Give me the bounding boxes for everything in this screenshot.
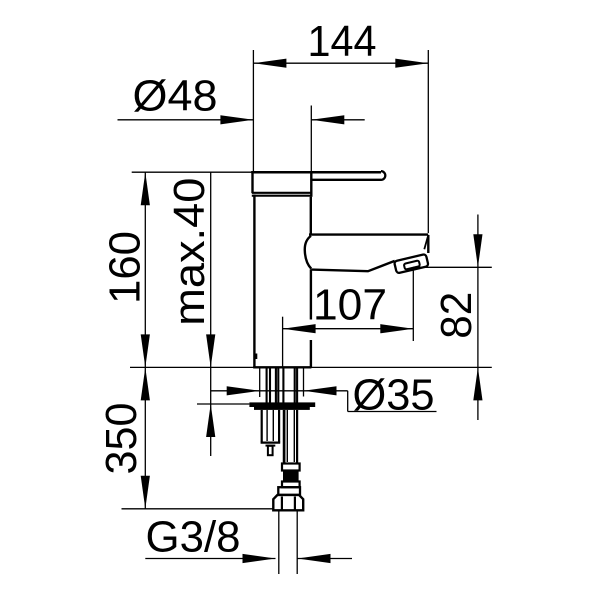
valve body left edge	[261, 410, 263, 443]
dimension O35 text underline	[348, 411, 437, 413]
nut facet line right	[294, 497, 296, 511]
arrowhead 350 top	[141, 367, 150, 400]
valve body shoulder lower	[266, 445, 276, 447]
svg-text:max.40: max.40	[166, 178, 214, 326]
valve body inner line right	[272, 410, 274, 441]
shank hose line c	[275, 368, 277, 402]
column right edge lower segment	[310, 340, 312, 367]
mounting flange plate	[249, 402, 315, 407]
dimension 82 dim line	[477, 215, 479, 421]
hose collar upper	[282, 464, 300, 471]
aerator outer housing	[394, 254, 429, 274]
spout left bulge curve	[305, 236, 311, 269]
dimension 107 right extension line	[412, 267, 414, 341]
hose tube right edge	[296, 410, 298, 464]
dimension O35 dim line	[211, 390, 348, 392]
dimension 144 dim line	[253, 62, 428, 64]
svg-text:G3/8: G3/8	[146, 514, 241, 562]
arrowhead 82 top	[473, 234, 482, 267]
column right edge upper segment	[310, 197, 312, 235]
faucet head joint line upper	[252, 192, 312, 194]
arrowhead max40 bottom	[206, 404, 215, 437]
column left edge	[253, 195, 255, 368]
nut facet line left	[281, 497, 283, 511]
arrowhead G38 right	[298, 554, 331, 563]
dimension max40 dim line	[210, 172, 212, 456]
valve body shoulder	[261, 442, 281, 444]
arrowhead 107 left	[283, 324, 316, 333]
dimension 160/350 dim line	[144, 172, 146, 509]
dimension 82 top reference line	[413, 266, 492, 268]
arrowhead O35 left	[227, 386, 260, 395]
column right edge middle segment	[310, 269, 312, 319]
arrowhead max40 top	[206, 334, 215, 367]
arrowhead G38 left	[243, 554, 276, 563]
faucet head cap top and lever top edge	[251, 171, 381, 174]
hose tube inner line left	[286, 410, 288, 462]
spout tip inner chamfer	[424, 237, 428, 250]
lever bottom edge	[311, 179, 381, 181]
arrowhead 107 right	[380, 324, 413, 333]
hose tube left edge	[283, 410, 286, 464]
dimension O35 leader riser	[347, 391, 349, 412]
fixing clip tick on column left edge	[254, 354, 257, 360]
arrowhead 160 top	[141, 172, 150, 205]
arrowhead O48 left	[220, 115, 253, 124]
dimension 160 top reference line	[132, 171, 252, 173]
valve body inner line left	[266, 410, 268, 441]
spout tip right edge	[427, 235, 429, 253]
svg-text:107: 107	[313, 282, 387, 330]
arrowhead 144 left	[253, 59, 286, 68]
spout bottom edge	[311, 261, 395, 271]
dimension G38 dim line left part	[145, 558, 275, 560]
shank thread line b	[269, 368, 271, 402]
dimension O35 right extension line	[303, 369, 305, 397]
mounting plane reference line	[130, 366, 492, 368]
faucet head joint line lower	[252, 195, 312, 197]
connector step	[278, 487, 300, 495]
dimension max40 bottom reference line	[197, 403, 249, 405]
dimension 107 left extension line	[282, 317, 284, 367]
shank rod line e	[282, 368, 284, 402]
arrowhead 82 bottom	[473, 367, 482, 400]
shank hose line d	[277, 368, 279, 402]
faucet head cap right edge	[310, 171, 312, 197]
dimension O35 left extension line	[259, 369, 261, 398]
svg-text:Ø48: Ø48	[133, 73, 218, 121]
arrowhead 144 right	[395, 59, 428, 68]
dimension 144 left extension line	[252, 50, 254, 171]
shank hose line f	[294, 368, 296, 402]
spout top edge	[309, 233, 428, 235]
dimension O48 right extension line	[310, 106, 312, 172]
arrowhead 350 bottom	[141, 476, 150, 509]
dimension 107 dim line	[283, 328, 414, 330]
mounting flange ring	[254, 407, 310, 410]
shank thread line a	[266, 368, 268, 402]
valve body right edge	[278, 410, 280, 443]
connection nut	[273, 495, 303, 510]
valve nipple	[268, 446, 273, 455]
faucet head cap left edge	[251, 171, 253, 193]
svg-text:160: 160	[102, 231, 150, 304]
svg-text:82: 82	[433, 292, 481, 339]
arrowhead O48 right	[311, 115, 344, 124]
dimension O48 dim line right tail	[311, 119, 364, 121]
supply pipe left edge	[278, 510, 280, 574]
svg-text:144: 144	[308, 18, 377, 66]
supply pipe right edge	[296, 510, 298, 574]
svg-text:Ø35: Ø35	[353, 372, 435, 420]
svg-text:350: 350	[98, 403, 146, 475]
lever rounded end	[381, 171, 385, 180]
hose tube inner line right	[293, 410, 295, 462]
arrowhead O35 right	[304, 386, 337, 395]
hose collar lower	[282, 482, 300, 488]
dimension G38 dim line right tail	[298, 558, 353, 560]
arrowhead 160 bottom	[141, 334, 150, 367]
shank hose line g	[296, 368, 298, 402]
column base line	[253, 366, 311, 368]
hose braided section	[283, 471, 299, 482]
dimension 350 bottom reference line	[122, 508, 274, 510]
aerator inner outlet	[404, 260, 420, 269]
dimension 144 right extension line	[427, 50, 429, 233]
dimension O48 dim line left part	[118, 119, 254, 121]
